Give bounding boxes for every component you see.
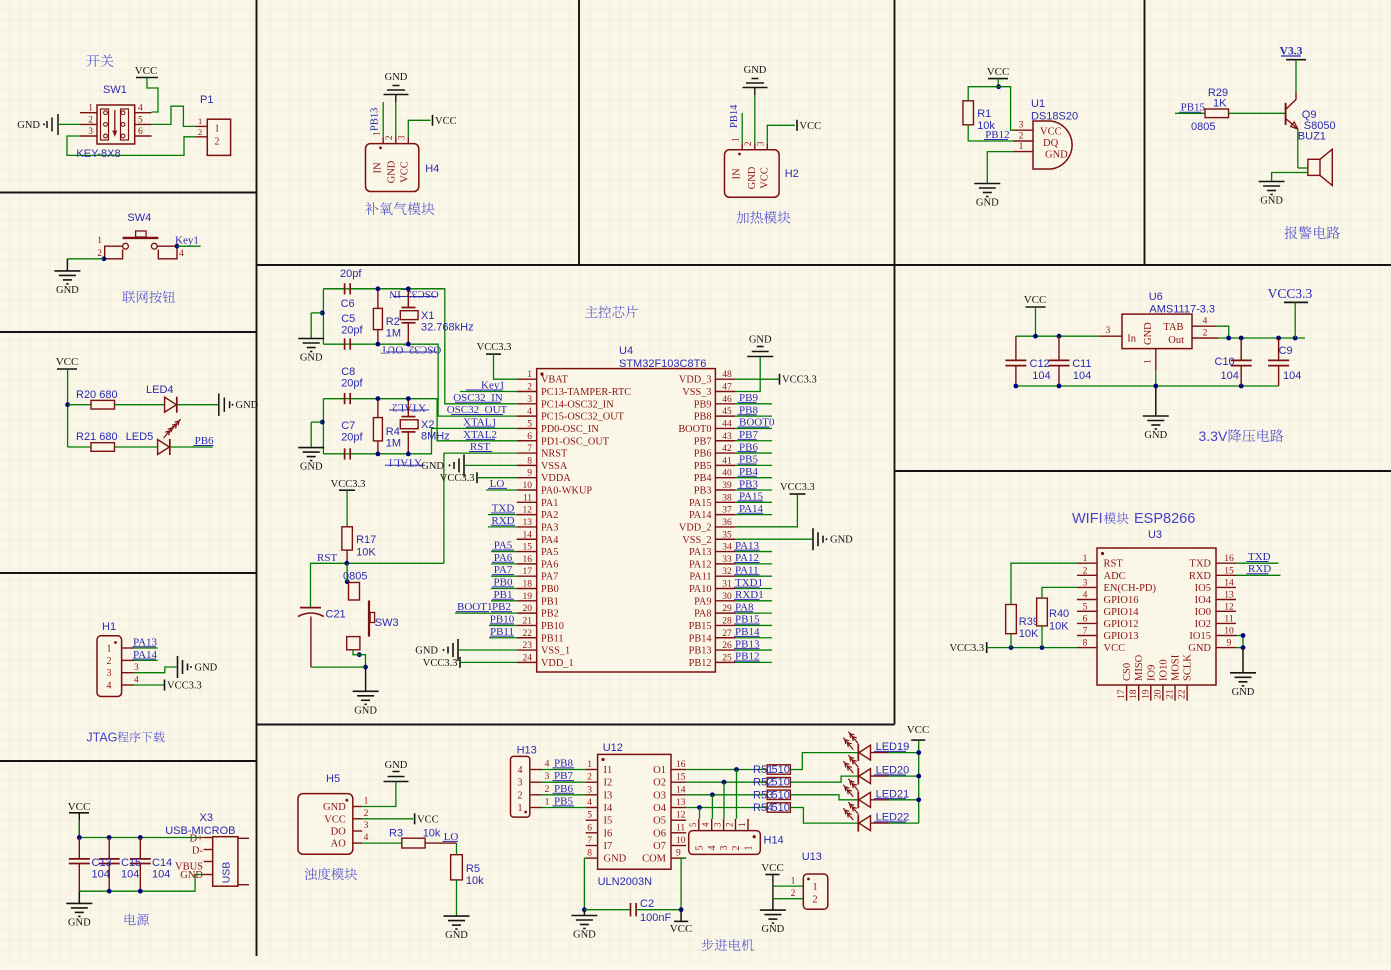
ic U6 body xyxy=(1122,314,1192,349)
wire BOOT0 xyxy=(735,427,772,429)
svg-text:GND: GND xyxy=(749,335,772,346)
svg-text:GND: GND xyxy=(387,160,398,183)
node O2 xyxy=(722,780,727,785)
resistor R54 xyxy=(767,803,790,812)
wire speaker gnd xyxy=(1272,173,1308,182)
wire PA11 xyxy=(735,575,772,577)
svg-text:3: 3 xyxy=(397,135,407,140)
svg-text:RST: RST xyxy=(1104,559,1124,570)
wire pin1 xyxy=(494,354,517,379)
wire R39 bottom xyxy=(1010,634,1012,648)
svg-text:I4: I4 xyxy=(604,803,613,814)
wire LED19 to rail xyxy=(871,752,889,754)
wire xtal1 bottom rail xyxy=(323,343,344,345)
wire U6 pin1 down xyxy=(1155,370,1157,386)
svg-text:ADC: ADC xyxy=(1104,571,1126,582)
wire c21 to gnd xyxy=(311,666,366,668)
svg-text:VCC3.3: VCC3.3 xyxy=(331,479,366,490)
wire LED22 to rail xyxy=(871,822,889,824)
svg-text:PD0-OSC_IN: PD0-OSC_IN xyxy=(541,424,599,435)
ground supply xyxy=(66,902,92,904)
svg-text:4: 4 xyxy=(701,822,711,827)
svg-text:10K: 10K xyxy=(1049,621,1069,633)
wire U6 out rail xyxy=(1218,337,1305,339)
svg-text:5: 5 xyxy=(688,822,698,827)
svg-text:PB15: PB15 xyxy=(689,621,712,632)
wire O2 xyxy=(686,781,767,783)
wire gnd stem supply xyxy=(78,891,80,903)
ic U3 body xyxy=(1097,548,1216,685)
capacitor C2 xyxy=(584,909,630,911)
svg-text:1: 1 xyxy=(545,798,550,808)
svg-text:IN: IN xyxy=(373,162,384,173)
connector H13 body xyxy=(511,756,530,817)
svg-text:PB9: PB9 xyxy=(694,399,712,410)
svg-text:GND: GND xyxy=(354,705,377,716)
node C2 left xyxy=(582,907,587,912)
svg-text:PA6: PA6 xyxy=(541,559,558,570)
svg-text:R51: R51 xyxy=(753,764,773,776)
svg-text:0805: 0805 xyxy=(1191,121,1215,133)
capacitor C21 xyxy=(300,607,321,609)
svg-text:34: 34 xyxy=(722,543,732,553)
node c2 left xyxy=(320,420,325,425)
svg-text:43: 43 xyxy=(722,432,732,442)
wire pin16 PA6 xyxy=(491,563,517,565)
svg-text:GND: GND xyxy=(573,930,596,941)
svg-text:GND: GND xyxy=(300,353,323,364)
wire LO down xyxy=(456,843,458,855)
svg-text:H5: H5 xyxy=(326,773,340,785)
wire H13 PB5 xyxy=(542,807,586,809)
capacitor C12 xyxy=(1015,336,1017,360)
svg-text:IO0: IO0 xyxy=(1195,607,1211,618)
wire LED5 to PB6 xyxy=(170,446,213,448)
wire R51 to LED xyxy=(790,753,858,770)
svg-text:2: 2 xyxy=(545,785,550,795)
SW4 pin1 contact xyxy=(105,246,123,259)
svg-text:D-: D- xyxy=(192,846,204,857)
wire vcc33 to R17 xyxy=(346,490,348,527)
ground U3 xyxy=(1230,672,1256,674)
ic U1 body xyxy=(1033,121,1072,169)
svg-text:1: 1 xyxy=(791,877,796,887)
wire H5 pin2 vcc xyxy=(362,818,413,820)
wire SW1 pin3 to P1 pin2 xyxy=(67,136,196,155)
svg-text:PB14: PB14 xyxy=(689,633,712,644)
svg-text:PB11: PB11 xyxy=(541,633,564,644)
svg-text:C7: C7 xyxy=(341,420,355,432)
svg-text:VDD_2: VDD_2 xyxy=(679,522,712,533)
resistor R52 xyxy=(767,778,790,787)
svg-text:20: 20 xyxy=(523,604,533,614)
svg-text:22: 22 xyxy=(523,629,533,639)
svg-text:IN: IN xyxy=(732,168,743,179)
svg-text:19: 19 xyxy=(523,592,533,602)
svg-text:104: 104 xyxy=(1032,370,1050,382)
wire xtal1 left xyxy=(322,289,324,344)
svg-text:XTAL1: XTAL1 xyxy=(388,457,422,469)
svg-text:4: 4 xyxy=(1083,591,1088,601)
svg-text:PC14-OSC32_IN: PC14-OSC32_IN xyxy=(541,399,614,410)
svg-text:3: 3 xyxy=(756,141,766,146)
svg-text:1: 1 xyxy=(744,846,755,851)
svg-text:H4: H4 xyxy=(425,163,439,175)
svg-text:DO: DO xyxy=(331,827,347,838)
svg-text:12: 12 xyxy=(1224,602,1234,612)
wire pin8 xyxy=(465,464,517,466)
wire pin24 xyxy=(460,661,517,663)
wire U1 vcc left xyxy=(968,87,998,101)
svg-text:4: 4 xyxy=(707,846,718,851)
wire led vcc rail xyxy=(918,740,920,823)
wire rst to sw3 xyxy=(346,563,348,581)
svg-text:GND: GND xyxy=(180,870,203,881)
svg-text:37: 37 xyxy=(722,506,732,516)
svg-text:PB12: PB12 xyxy=(689,658,712,669)
svg-text:NRST: NRST xyxy=(541,449,568,460)
svg-text:2: 2 xyxy=(731,846,742,851)
power VCC H4 xyxy=(432,115,434,126)
ground mcu bottom xyxy=(353,690,379,692)
svg-text:4: 4 xyxy=(179,249,184,259)
ground sideways LED4 xyxy=(218,393,220,416)
svg-text:27: 27 xyxy=(722,629,732,639)
wire H13 PB6 xyxy=(542,794,586,796)
svg-text:3: 3 xyxy=(545,772,550,782)
svg-text:1: 1 xyxy=(198,116,202,126)
node O1 xyxy=(734,767,739,772)
svg-text:I2: I2 xyxy=(604,778,613,789)
wire R20 to LED4 xyxy=(115,404,165,406)
svg-text:15: 15 xyxy=(523,543,533,553)
svg-text:40: 40 xyxy=(722,469,732,479)
svg-text:7: 7 xyxy=(1083,627,1088,637)
svg-text:4: 4 xyxy=(134,676,139,686)
svg-text:GND: GND xyxy=(421,461,444,472)
svg-text:32.768kHz: 32.768kHz xyxy=(421,322,474,334)
svg-text:O3: O3 xyxy=(653,790,666,801)
wire gnd branch c1 xyxy=(311,312,322,314)
svg-text:PA15: PA15 xyxy=(689,498,712,509)
svg-text:VCC: VCC xyxy=(417,814,439,825)
svg-text:1: 1 xyxy=(97,236,102,246)
svg-text:GND: GND xyxy=(195,663,218,674)
svg-text:OSC32_IN: OSC32_IN xyxy=(389,288,439,300)
svg-text:46: 46 xyxy=(722,395,732,405)
wire H1 pin3 to GND xyxy=(134,667,177,673)
svg-text:29: 29 xyxy=(722,604,732,614)
svg-text:2: 2 xyxy=(384,136,394,141)
wire pin10 LO xyxy=(486,489,517,491)
diode LED4 xyxy=(165,397,177,412)
svg-text:GND: GND xyxy=(300,462,323,473)
svg-text:PB14: PB14 xyxy=(729,104,740,128)
svg-text:44: 44 xyxy=(722,419,732,429)
svg-text:6: 6 xyxy=(1083,614,1088,624)
svg-text:21: 21 xyxy=(523,616,533,626)
svg-text:23: 23 xyxy=(523,641,533,651)
title kaiguan xyxy=(87,54,114,67)
svg-text:KEY-8X8: KEY-8X8 xyxy=(76,148,120,160)
svg-text:VCC3.3: VCC3.3 xyxy=(423,658,458,669)
node Key1 xyxy=(175,244,180,249)
svg-text:GND: GND xyxy=(1188,643,1211,654)
svg-text:EN(CH-PD): EN(CH-PD) xyxy=(1104,583,1157,594)
svg-text:GND: GND xyxy=(762,924,785,935)
svg-text:PA10: PA10 xyxy=(689,584,712,595)
svg-text:28: 28 xyxy=(722,616,732,626)
svg-text:8: 8 xyxy=(587,849,592,859)
wire VCC stem supply xyxy=(78,813,80,838)
svg-text:8MHz: 8MHz xyxy=(421,431,450,443)
H5 pins xyxy=(353,806,362,808)
wire R29 to base xyxy=(1229,112,1286,114)
capacitor C11 xyxy=(1058,336,1060,360)
svg-text:10K: 10K xyxy=(356,547,376,559)
svg-text:2: 2 xyxy=(97,249,102,259)
svg-text:VCC3.3: VCC3.3 xyxy=(1268,286,1313,301)
svg-text:C13: C13 xyxy=(92,857,112,869)
svg-text:GND: GND xyxy=(385,72,408,83)
nodes X2 xyxy=(406,396,411,401)
svg-text:1: 1 xyxy=(587,760,592,770)
svg-text:C2: C2 xyxy=(640,898,654,910)
wire PA13 xyxy=(735,551,772,553)
resistor R29 xyxy=(1205,109,1229,118)
svg-text:H1: H1 xyxy=(102,621,116,633)
node gnd join xyxy=(363,665,368,670)
nodes U6 in rail xyxy=(1033,334,1038,339)
svg-text:11: 11 xyxy=(1224,614,1233,624)
wire H14 drop 4 xyxy=(699,808,701,819)
svg-text:O7: O7 xyxy=(653,841,666,852)
svg-text:104: 104 xyxy=(152,869,170,881)
svg-text:O5: O5 xyxy=(653,816,666,827)
svg-text:COM: COM xyxy=(642,854,667,865)
svg-text:11: 11 xyxy=(676,823,685,833)
ground SW4 xyxy=(54,270,80,272)
wire pin13 RXD xyxy=(488,526,517,528)
svg-text:R5: R5 xyxy=(466,863,480,875)
svg-text:9: 9 xyxy=(676,849,681,859)
svg-text:1K: 1K xyxy=(1213,98,1227,110)
capacitor C6 xyxy=(344,283,346,294)
wire R21 to LED5 xyxy=(115,446,158,448)
svg-text:2: 2 xyxy=(725,823,735,828)
svg-text:ULN2003N: ULN2003N xyxy=(598,876,652,888)
wire H5 pin1 gnd xyxy=(362,782,396,807)
resistor R40 xyxy=(1037,598,1048,626)
svg-text:VCC: VCC xyxy=(670,923,693,935)
svg-text:3: 3 xyxy=(719,846,730,851)
connector U13 body xyxy=(803,874,828,909)
svg-text:31: 31 xyxy=(722,580,732,590)
svg-text:GND: GND xyxy=(385,760,408,771)
svg-text:R20 680: R20 680 xyxy=(76,389,118,401)
svg-text:X3: X3 xyxy=(200,812,213,824)
svg-text:42: 42 xyxy=(722,444,732,454)
wire pin17 PA7 xyxy=(491,575,517,577)
wire bottom rail supply xyxy=(79,875,203,892)
svg-text:2: 2 xyxy=(1083,566,1088,576)
U6 pin3 xyxy=(1099,335,1122,337)
svg-text:20pf: 20pf xyxy=(341,325,363,337)
svg-text:VCC: VCC xyxy=(400,161,411,183)
wire VCC stem U6 xyxy=(1035,307,1037,336)
svg-text:2: 2 xyxy=(88,115,93,125)
svg-text:5: 5 xyxy=(138,115,143,125)
svg-text:U1: U1 xyxy=(1031,98,1045,110)
svg-text:I1: I1 xyxy=(604,765,613,776)
svg-text:CS0: CS0 xyxy=(1122,663,1133,681)
svg-text:PA1: PA1 xyxy=(541,498,558,509)
wire PB12 xyxy=(735,661,772,663)
capacitor C14 xyxy=(139,838,141,859)
svg-text:PB1: PB1 xyxy=(541,596,559,607)
svg-text:VDD_1: VDD_1 xyxy=(541,658,574,669)
ground U13 xyxy=(772,899,774,910)
svg-text:PB4: PB4 xyxy=(694,473,712,484)
wire VCC3.3 to U3 pin8 xyxy=(987,647,1077,649)
resistor R17 xyxy=(342,527,353,550)
svg-text:510: 510 xyxy=(772,777,790,789)
wire pin2 Key1 xyxy=(460,391,517,393)
svg-text:3: 3 xyxy=(364,821,369,831)
power VCC C2 xyxy=(680,910,682,922)
svg-text:10k: 10k xyxy=(466,875,484,887)
svg-text:GND: GND xyxy=(56,285,79,296)
wire top rail supply xyxy=(79,837,203,839)
wire VCC3.3 stem U6 xyxy=(1294,302,1296,338)
resistor R4 xyxy=(377,399,379,418)
svg-text:IO5: IO5 xyxy=(1195,583,1211,594)
wire U6 bottom rail xyxy=(1016,385,1279,387)
svg-text:P1: P1 xyxy=(200,94,213,106)
resistor R3 xyxy=(402,838,425,848)
ground U1 xyxy=(974,183,1000,185)
svg-text:3: 3 xyxy=(1106,326,1111,336)
wire pin20 PB2 xyxy=(455,612,517,614)
svg-text:1: 1 xyxy=(372,132,382,137)
wire H14 drop 3 xyxy=(711,795,713,819)
ground alarm xyxy=(1259,181,1285,183)
wire RXD1 xyxy=(735,600,772,602)
wire pin21 PB10 xyxy=(489,624,517,626)
svg-text:U12: U12 xyxy=(603,742,623,754)
wire pin19 PB1 xyxy=(491,600,517,602)
resistor R1 xyxy=(963,101,974,125)
nodes led rail xyxy=(916,750,921,755)
svg-text:20pf: 20pf xyxy=(341,378,363,390)
wire PB15 to R29 xyxy=(1175,112,1205,114)
svg-text:BOOT0: BOOT0 xyxy=(678,424,711,435)
svg-text:16: 16 xyxy=(523,555,533,565)
svg-text:GND: GND xyxy=(604,854,627,865)
nodes R2 xyxy=(376,286,381,291)
svg-text:3: 3 xyxy=(1019,121,1024,131)
title lianwang anniu xyxy=(122,291,175,303)
wire xtal2 top rail xyxy=(323,398,344,400)
wire U6 in rail xyxy=(1016,335,1099,337)
wire U13 pin2 xyxy=(772,886,774,899)
wire H4 pin3 to VCC xyxy=(408,120,430,137)
svg-text:1: 1 xyxy=(812,882,817,893)
svg-text:20pf: 20pf xyxy=(341,432,363,444)
svg-text:13: 13 xyxy=(1224,591,1234,601)
node O3 xyxy=(710,792,715,797)
svg-text:I3: I3 xyxy=(604,790,613,801)
wire pin47 gnd xyxy=(735,357,760,392)
wire sw3 to gnd xyxy=(353,650,366,667)
svg-text:30: 30 xyxy=(722,592,732,602)
power VCC H2 xyxy=(796,120,798,131)
svg-text:R40: R40 xyxy=(1049,608,1069,620)
title bujin xyxy=(702,939,754,951)
wire PA15 xyxy=(735,501,772,503)
svg-text:5: 5 xyxy=(527,419,532,429)
wire SW4 to GND xyxy=(67,258,104,260)
svg-text:GND: GND xyxy=(830,535,853,546)
wire PA13 xyxy=(134,647,158,649)
svg-text:21: 21 xyxy=(1166,689,1176,699)
wire H2 pin3 to VCC xyxy=(767,125,795,143)
wire H14 drop 2 xyxy=(723,782,725,819)
wire pin3 osc32in xyxy=(323,289,516,404)
title baojing xyxy=(1284,226,1339,239)
wire PB14 xyxy=(735,637,772,639)
svg-text:VSS_3: VSS_3 xyxy=(682,387,711,398)
svg-text:VCC: VCC xyxy=(56,356,79,368)
switch SW3 contact bottom xyxy=(347,637,360,650)
wire H2 pin1 xyxy=(741,113,743,143)
wire emitter xyxy=(1297,129,1299,168)
svg-text:9: 9 xyxy=(527,469,532,479)
resistor R21 xyxy=(91,443,115,452)
svg-text:9: 9 xyxy=(1227,639,1232,649)
svg-text:PA4: PA4 xyxy=(541,535,558,546)
svg-text:48: 48 xyxy=(722,370,732,380)
svg-text:IO10: IO10 xyxy=(1158,659,1169,681)
diode LED22 xyxy=(857,815,859,832)
wire pin7 rst xyxy=(444,453,517,563)
svg-text:1: 1 xyxy=(518,803,523,814)
svg-text:X1: X1 xyxy=(421,310,434,322)
svg-text:VDDA: VDDA xyxy=(541,473,571,484)
svg-text:SW3: SW3 xyxy=(375,617,399,629)
svg-text:PA5: PA5 xyxy=(541,547,558,558)
svg-text:1: 1 xyxy=(731,138,741,143)
svg-text:4: 4 xyxy=(364,833,369,843)
svg-text:C8: C8 xyxy=(341,366,355,378)
wire VCC rail LED xyxy=(67,369,69,447)
svg-text:VCC: VCC xyxy=(324,814,346,825)
svg-text:GND: GND xyxy=(445,930,468,941)
switch SW4 button xyxy=(136,231,147,237)
svg-text:33: 33 xyxy=(722,555,732,565)
connector H4 body xyxy=(366,144,419,192)
SW1 pins 1-6 xyxy=(80,112,97,114)
svg-text:PA12: PA12 xyxy=(689,559,712,570)
svg-text:18: 18 xyxy=(523,580,533,590)
svg-text:VCC3.3: VCC3.3 xyxy=(780,482,815,493)
svg-text:PB2: PB2 xyxy=(541,609,559,620)
wire Key1 xyxy=(177,245,201,247)
svg-text:45: 45 xyxy=(722,407,732,417)
svg-text:36: 36 xyxy=(722,518,732,528)
svg-text:5: 5 xyxy=(694,846,705,851)
wire to R20 xyxy=(68,404,91,406)
